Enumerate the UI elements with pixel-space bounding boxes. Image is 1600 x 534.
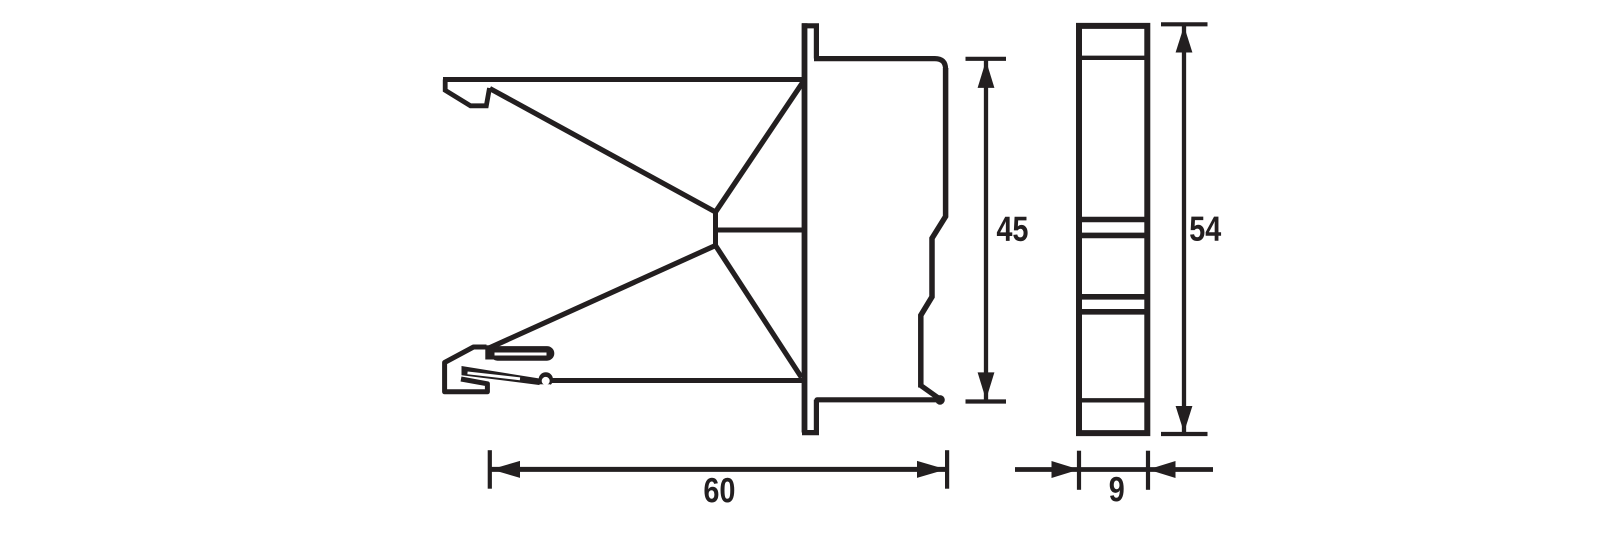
side view: flange top tab <box>802 26 816 59</box>
side view: lever pivot notch (white) <box>542 377 550 385</box>
side view: tongue-claw junction patch <box>485 345 494 359</box>
front view: internal rib line 6 <box>1077 398 1150 402</box>
front view: internal rib line 3 <box>1077 233 1150 239</box>
side view: bottom-left claw outline <box>445 347 488 392</box>
front view: internal rib line 1 <box>1077 56 1150 60</box>
side view: device body bottom edge <box>817 397 938 402</box>
dimension 54: arrowhead up <box>1176 26 1193 53</box>
dimension 9: horizontal dimension line <box>1015 467 1213 472</box>
side view: latch lever (lower finger) <box>462 366 542 385</box>
dimension 45: arrowhead down <box>978 372 995 399</box>
side view: flange bottom tab <box>802 400 816 433</box>
side view: lower-right diagonal strut <box>716 246 802 378</box>
dimension 54: arrowhead down <box>1176 406 1193 433</box>
side view: device body top edge with rounded corner <box>814 59 946 70</box>
front view: internal rib line 5 <box>1077 309 1150 315</box>
side view: body bottom edge rounded tip <box>935 395 945 405</box>
dimension 9: label <box>1110 477 1124 502</box>
side view: top-left hook claw <box>445 80 489 106</box>
side view: body bottom foot flare <box>921 386 938 398</box>
dimension 54: vertical dimension line <box>1182 26 1186 434</box>
side view: latch tongue (upper finger) <box>498 346 548 361</box>
dimension 60: horizontal dimension line <box>491 467 946 472</box>
side view: upper diagonal strut <box>490 89 716 213</box>
side view: notch underside clear (white) <box>540 384 551 389</box>
side view: top edge line <box>443 77 807 82</box>
dimension 45: arrowhead up <box>978 61 995 88</box>
side view: latch lever tip hump <box>539 372 553 386</box>
side view: center vertical segment <box>713 210 718 246</box>
dimension 54: extension tick bottom <box>1161 432 1208 436</box>
dimension 9: extension tick right <box>1146 451 1150 490</box>
dimension 60: label <box>704 478 734 503</box>
dimension 9: extension tick left <box>1077 451 1081 490</box>
side view: tongue slot (white) <box>495 353 547 356</box>
dimension 60: arrowhead right <box>917 461 946 478</box>
dimension 60: extension tick left <box>488 450 492 489</box>
dimension 45: label <box>997 217 1028 241</box>
dimension 45: extension tick top <box>966 57 1007 61</box>
side view: lower-left diagonal strut <box>488 246 716 349</box>
dimension 45: extension tick bottom <box>966 399 1007 403</box>
side view: upper-right diagonal strut <box>716 82 804 212</box>
side view: lever slot (white) <box>468 373 521 379</box>
dimension 54: extension tick top <box>1161 22 1208 26</box>
dimension 45: vertical dimension line <box>984 60 988 400</box>
front view: internal rib line 4 <box>1077 294 1150 300</box>
dimension 54: label <box>1190 217 1221 241</box>
dimension 9: arrowhead pointing left <box>1148 461 1176 478</box>
front view: outer rectangle profile <box>1079 26 1147 433</box>
side view: bottom edge line <box>551 378 804 383</box>
side view: mounting flange vertical plate <box>802 23 808 432</box>
dimension 9: arrowhead pointing right <box>1052 461 1080 478</box>
dimension 60: arrowhead left <box>491 461 520 478</box>
side view: device body right stepped profile <box>921 68 946 388</box>
dimension 60: extension tick right <box>945 450 949 489</box>
side view: center horizontal strut <box>716 228 805 233</box>
front view: internal rib line 2 <box>1077 217 1150 223</box>
